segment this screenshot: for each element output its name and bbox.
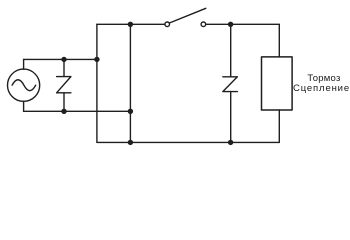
wire node2 horizontal bbox=[24, 58, 97, 60]
arrester F1 Z symbol bbox=[57, 77, 71, 93]
switch S1 blade bbox=[169, 8, 205, 23]
junction node top/F2 bbox=[228, 22, 233, 27]
AC source G1 bbox=[8, 69, 40, 101]
arrester F1 bottom lead bbox=[63, 93, 65, 111]
junction node bottom/F2 bbox=[228, 140, 233, 145]
arrester F2 Z symbol bbox=[223, 77, 238, 92]
arrester F1 top lead bbox=[63, 59, 65, 76]
wire vertical bus B bbox=[129, 24, 131, 142]
svg-text:Сцепление: Сцепление bbox=[293, 83, 350, 94]
wire node3 horizontal bbox=[24, 110, 131, 112]
junction node wire3/busB bbox=[128, 109, 133, 114]
arrester F2 bottom lead bbox=[230, 92, 232, 143]
arrester F2 top lead bbox=[230, 24, 232, 77]
wire AC bottom lead bbox=[23, 101, 25, 111]
wire riser to load box bottom bbox=[278, 110, 280, 142]
label Тормоз / Сцепление bbox=[293, 73, 350, 94]
wire AC top lead bbox=[23, 59, 25, 69]
wire top right segment bbox=[206, 23, 280, 25]
wire drop to load box bbox=[278, 24, 280, 57]
switch S1 left contact bbox=[165, 22, 170, 27]
load box (brake/clutch) bbox=[262, 57, 293, 110]
junction node wire3/F1 bbox=[61, 109, 66, 114]
junction node top/busB bbox=[128, 22, 133, 27]
junction node wire2/busA bbox=[94, 57, 99, 62]
wire top left segment bbox=[97, 23, 165, 25]
switch S1 right contact bbox=[201, 22, 206, 27]
AC sine wave bbox=[12, 80, 36, 91]
junction node bottom/busB bbox=[128, 140, 133, 145]
junction node wire2/F1 bbox=[61, 57, 66, 62]
wire vertical bus A bbox=[96, 24, 98, 142]
wire bottom horizontal bbox=[97, 141, 279, 143]
